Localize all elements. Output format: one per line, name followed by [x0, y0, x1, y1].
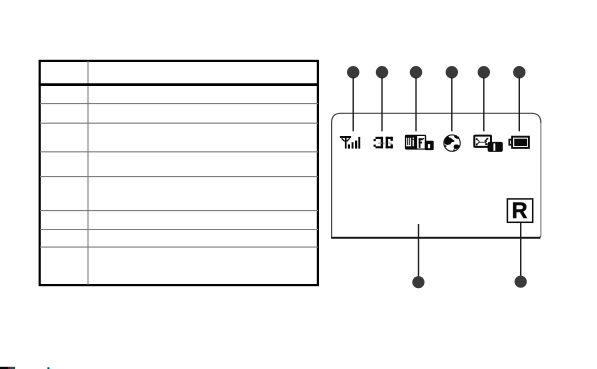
- web browser globe icon: [444, 135, 460, 151]
- phone screen right edge (lighter): [540, 123, 542, 236]
- callout line bottom left: [418, 224, 420, 278]
- callout dot 1: [347, 66, 359, 78]
- callout dot bottom left: [412, 276, 424, 288]
- page edge artifact dot: [48, 367, 49, 369]
- page edge artifact dash: [0, 367, 8, 369]
- table row line 1: [40, 103, 318, 105]
- table row line 7: [40, 246, 318, 248]
- 3G icon: [374, 137, 393, 149]
- callout dot 6: [513, 66, 525, 78]
- callout dot bottom right: [515, 276, 527, 288]
- table row line 6: [40, 229, 318, 231]
- table row line 3: [40, 151, 318, 153]
- phone screen bottom edge: [331, 237, 540, 239]
- table row line 5: [40, 210, 318, 212]
- callout dot 3: [410, 66, 422, 78]
- callout dot 4: [446, 66, 458, 78]
- callout line 4: [451, 77, 453, 131]
- callout line 2: [381, 77, 383, 131]
- callout line 5: [483, 77, 485, 131]
- callout line 3: [415, 77, 417, 131]
- battery icon: [509, 137, 529, 148]
- callout line 6: [518, 77, 520, 131]
- callout dot 2: [376, 66, 388, 78]
- wifi icon: [405, 135, 434, 150]
- table outer border: [40, 61, 318, 285]
- mail icon: [474, 136, 503, 152]
- table row line 2: [40, 122, 318, 124]
- table row line 4: [40, 176, 318, 178]
- svg-text:R: R: [512, 198, 528, 223]
- table header underline: [39, 83, 319, 86]
- phone screen outline: [332, 113, 541, 237]
- table column separator: [87, 61, 89, 285]
- callout dot 5: [478, 66, 490, 78]
- callout line 1: [352, 77, 354, 131]
- callout line bottom right: [520, 223, 522, 277]
- signal strength icon: [340, 136, 360, 149]
- roaming R box: [507, 199, 532, 222]
